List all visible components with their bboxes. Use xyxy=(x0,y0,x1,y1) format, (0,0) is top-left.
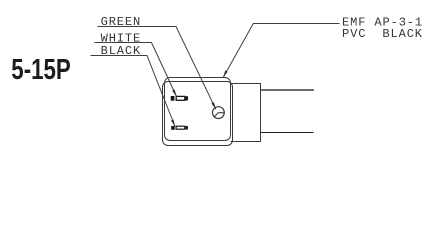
svg-text:GREEN: GREEN xyxy=(101,15,142,29)
svg-text:5-15P: 5-15P xyxy=(11,54,71,86)
svg-text:PVC BLACK: PVC BLACK xyxy=(342,27,423,41)
svg-text:BLACK: BLACK xyxy=(101,44,142,58)
